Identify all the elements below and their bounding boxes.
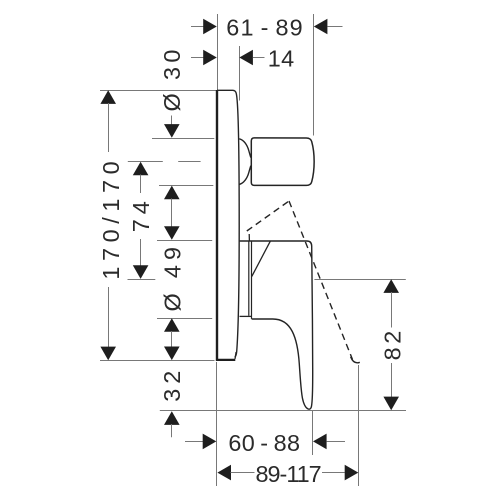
dimension D30 arrow top: [164, 124, 180, 138]
dimension 60-88 right tail: [327, 441, 345, 443]
center line knob axis right: [178, 161, 200, 163]
dimension 32 arrow top: [164, 347, 180, 361]
dimension line between D30 and D49: [171, 199, 173, 227]
dimension D30 arrow bottom: [164, 186, 180, 200]
dimension 14 arrow right: [239, 50, 253, 66]
svg-text:Ø 49: Ø 49: [160, 242, 186, 312]
extension line plate front (x=239): [239, 46, 241, 101]
svg-text:32: 32: [159, 366, 185, 402]
lever stem left wall: [248, 241, 250, 316]
dimension 60-88 arrow left: [203, 434, 217, 450]
dimension 74 arrow top: [133, 162, 149, 176]
extension line lever tip level (y=410.4): [160, 410, 406, 412]
wall plate outline: [217, 90, 239, 357]
dimension line between D49 and 32: [171, 331, 173, 348]
dimension 61-89 line left tail: [191, 26, 204, 28]
dashed lever lower edge: [247, 201, 289, 231]
dimension 32 stub below: [171, 424, 173, 437]
dimension 74 line upper: [140, 175, 142, 194]
svg-text:74: 74: [128, 196, 154, 232]
dimension 82 arrow top: [383, 279, 399, 293]
dimension D30 stub above: [171, 116, 173, 126]
extension line wall lower (x=216.6): [216, 362, 218, 486]
dimension 89-117 arrow left: [217, 465, 231, 481]
extension line lever tip (x=312.4): [312, 411, 314, 455]
extension line lever stem bottom (y=318): [157, 318, 212, 320]
center line lever axis (y=279): [128, 279, 156, 281]
wall plate bottom edge (thick): [217, 359, 235, 361]
dashed lever start tick: [248, 234, 250, 241]
svg-text:61 - 89: 61 - 89: [226, 14, 304, 40]
dimension 170/170 line upper: [108, 103, 110, 152]
dimension 14 right tail: [253, 57, 265, 59]
wall plate right edge lower continuation: [235, 352, 236, 359]
dimension D49 arrow bottom: [164, 318, 180, 332]
dimension 32 arrow bottom: [164, 411, 180, 425]
extension line dashed lever tip (x=358.4): [358, 365, 360, 486]
dashed lever long edge: [289, 201, 353, 360]
dimension 60-88 line left tail: [185, 441, 203, 443]
extension line knob bottom (y=185.4): [159, 185, 213, 187]
lever stem right wall: [251, 241, 253, 319]
svg-text:89-117: 89-117: [256, 461, 321, 487]
dimension 89-117 line left: [231, 472, 255, 474]
dimension 61-89 arrow right: [314, 19, 328, 35]
lever body outline: [240, 241, 313, 409]
dimension 14 line left tail: [191, 57, 204, 59]
extension line plate bottom (y=360.3): [100, 360, 215, 362]
dimension 89-117 line right: [322, 472, 345, 474]
svg-text:Ø 30: Ø 30: [159, 45, 185, 111]
dimension 61-89 right tail: [327, 26, 342, 28]
dimension 170/170 line lower: [108, 287, 110, 348]
dashed lever tip hook: [351, 357, 360, 363]
dimension 61-89 arrow left: [203, 19, 217, 35]
dimension 74 line lower: [140, 239, 142, 266]
svg-text:170/170: 170/170: [98, 156, 124, 280]
dimension 170/170 arrow top: [100, 90, 116, 104]
dimension 82 arrow bottom: [383, 397, 399, 411]
wall plate left edge (thick): [216, 90, 218, 361]
dimension 60-88 arrow right: [313, 434, 327, 450]
dimension 82 line lower: [391, 363, 393, 398]
dimension 89-117 arrow right: [345, 465, 359, 481]
dimension 170/170 arrow bottom: [100, 347, 116, 361]
extension line knob front (x=313.4): [313, 14, 315, 136]
dimension 14 arrow left: [203, 50, 217, 66]
svg-text:82: 82: [379, 327, 405, 360]
knob body: [251, 138, 314, 186]
extension line top-left wall (x=217): [217, 14, 219, 90]
dimension D49 arrow top: [164, 226, 180, 240]
extension line knob top (y=137.9): [152, 138, 214, 140]
knob stem lower fillet: [239, 166, 251, 185]
extension line plate top (y=90): [100, 90, 216, 92]
knob stem upper fillet: [239, 139, 251, 158]
center line knob axis left (y=161.5): [128, 161, 163, 163]
dimension 82 line upper: [391, 292, 393, 328]
svg-text:60 - 88: 60 - 88: [228, 430, 300, 456]
lever stem bottom cap: [240, 315, 252, 317]
extension line lever top (y=240.2): [157, 240, 212, 242]
dimension 74 arrow bottom: [133, 265, 149, 279]
svg-text:14: 14: [268, 45, 295, 71]
extension line 82 top (y=279.1): [314, 279, 405, 281]
lever hub diagonal: [252, 241, 271, 276]
